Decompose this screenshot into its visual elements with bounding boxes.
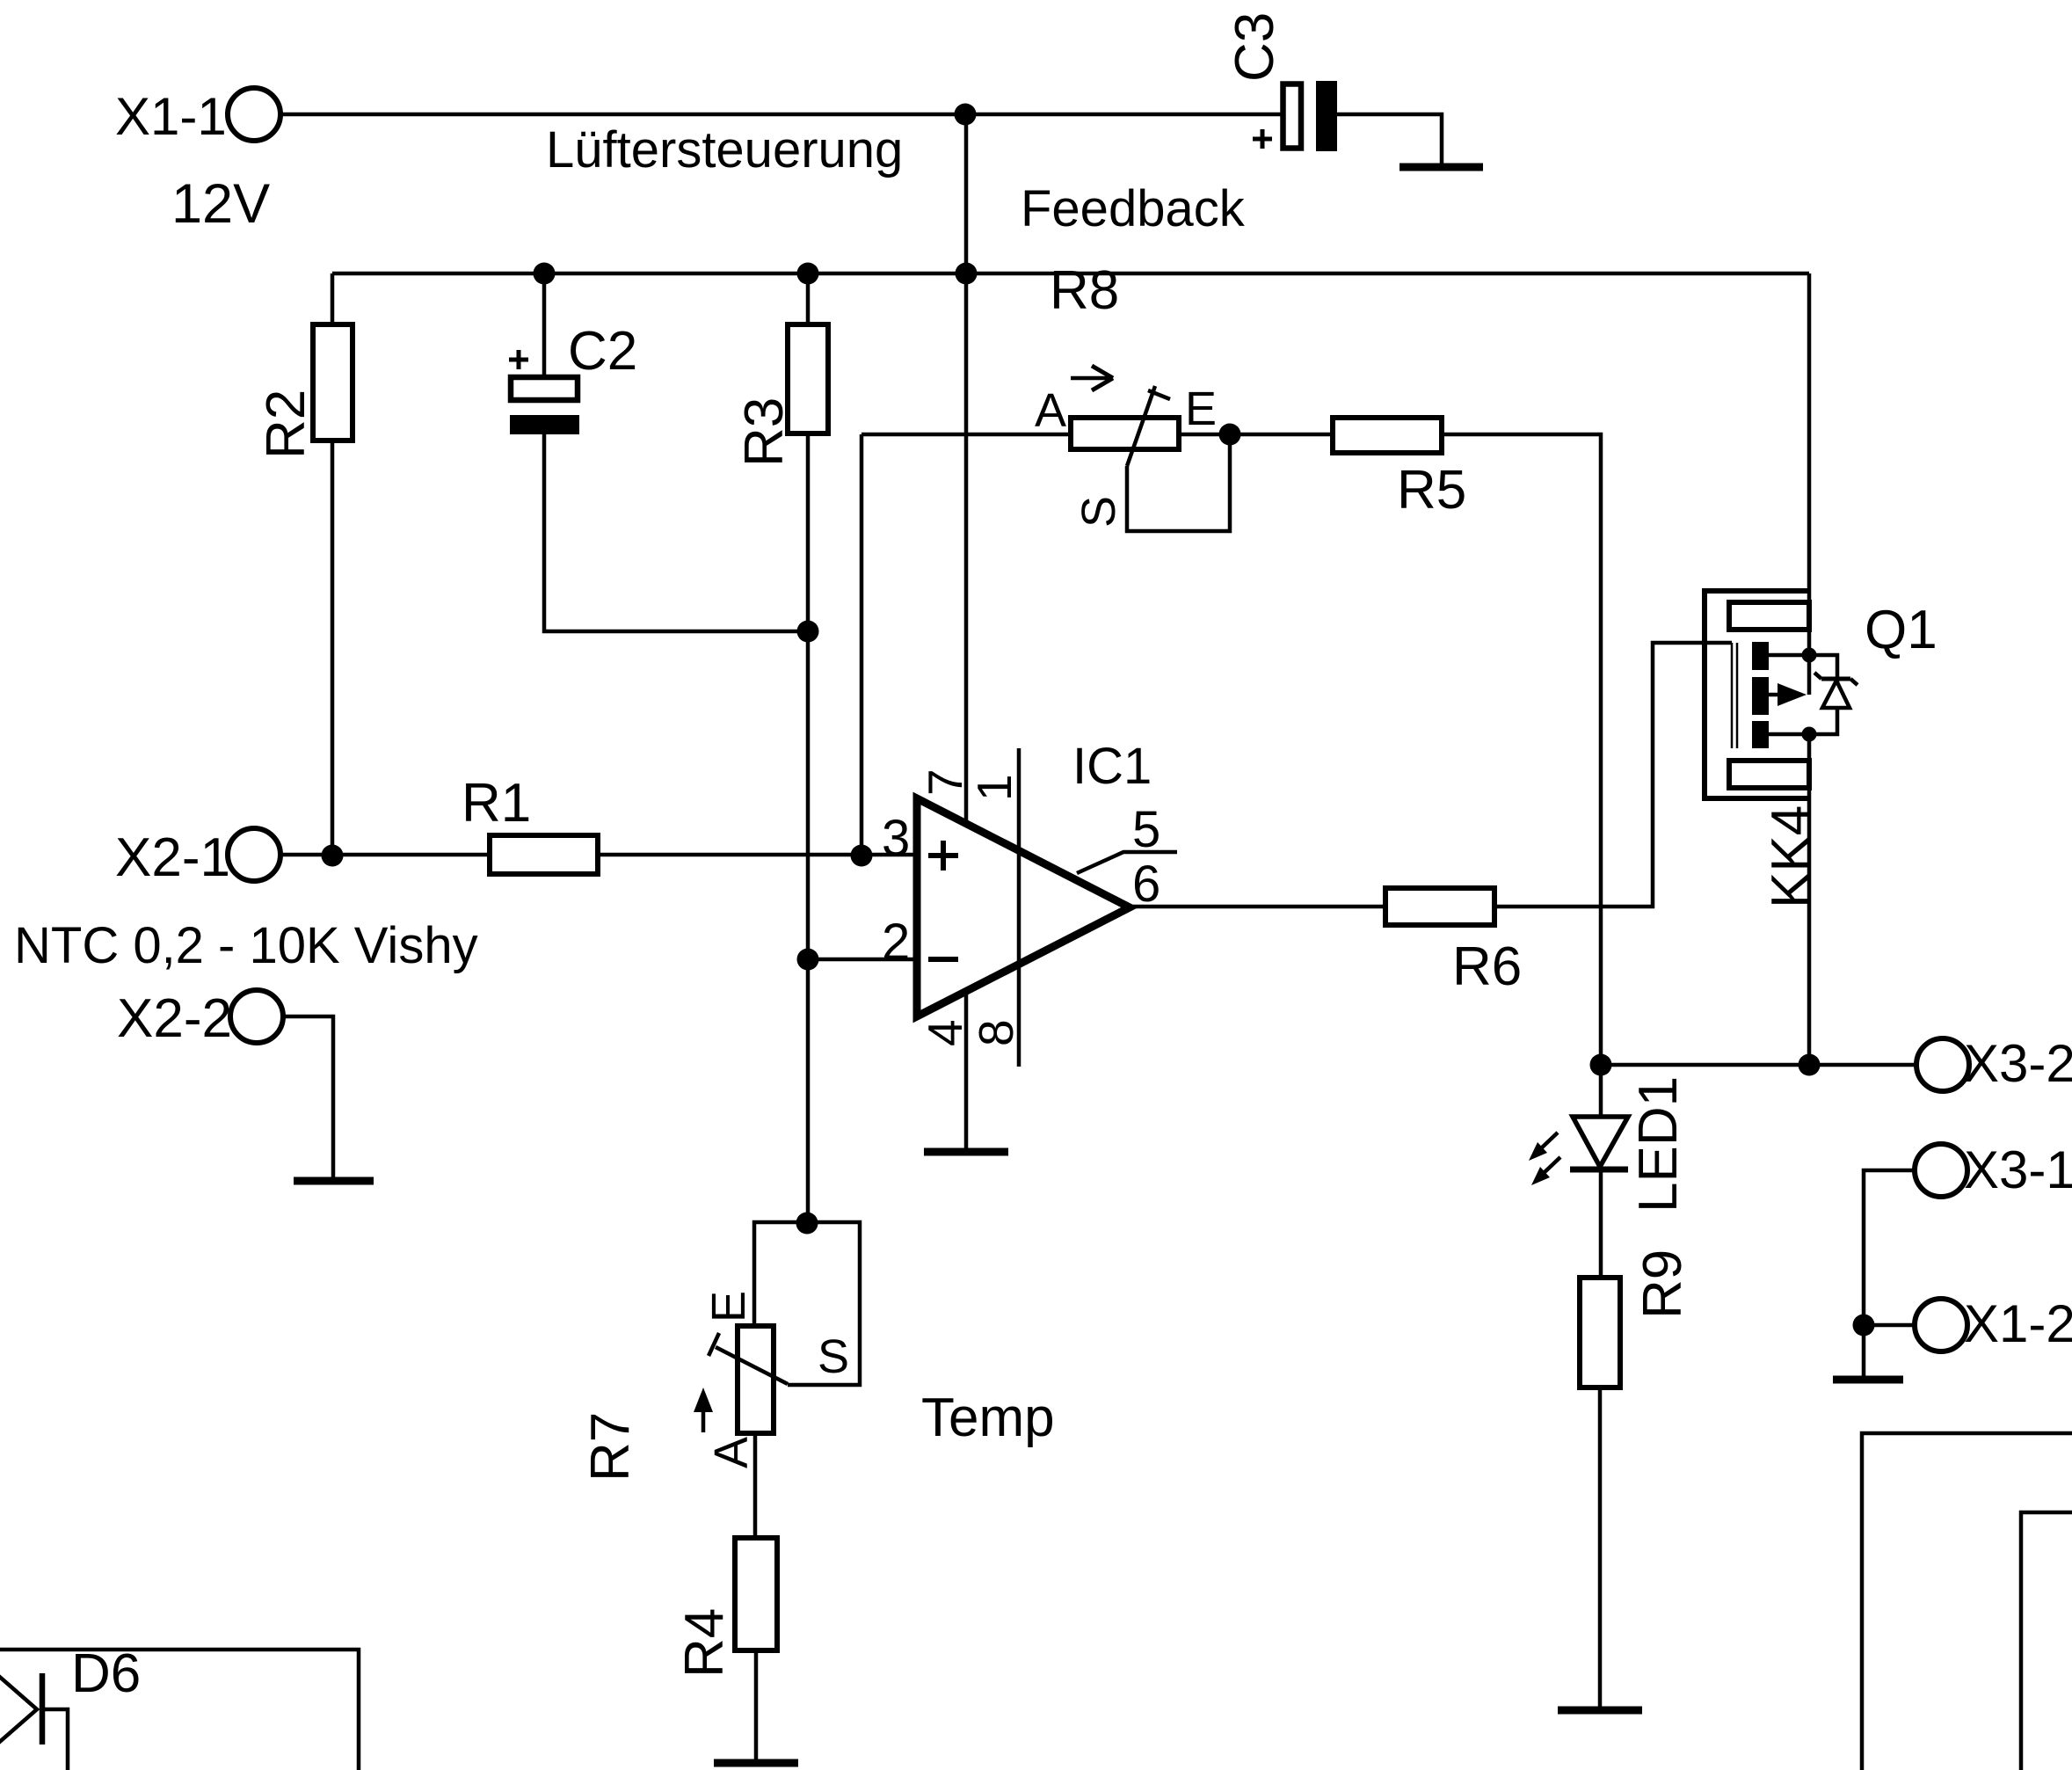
- svg-text:8: 8: [969, 1019, 1023, 1046]
- node Q1 source X3-2 junction: [1799, 1054, 1821, 1076]
- node R8 E junction: [1219, 424, 1241, 446]
- wire D6 cathode lead: [42, 1709, 68, 1770]
- op-amp IC1: [882, 738, 1160, 1046]
- wire X2-1 to R1: [280, 853, 490, 857]
- svg-text:NTC 0,2 - 10K Vishy: NTC 0,2 - 10K Vishy: [14, 917, 478, 974]
- wire Q1 source down: [1807, 734, 1812, 1065]
- svg-text:C2: C2: [568, 321, 637, 382]
- diode D6: [0, 1643, 141, 1745]
- node pin3 junction: [851, 845, 873, 867]
- node R3 top: [797, 263, 819, 285]
- wire pot R8 A drop to pin3: [860, 434, 864, 856]
- svg-text:R6: R6: [1452, 936, 1522, 997]
- resistor R5: [1333, 418, 1466, 521]
- wire X3-1 link: [1864, 1170, 1915, 1325]
- svg-text:X2-2: X2-2: [117, 988, 232, 1049]
- wire X2-2 to ground: [283, 1016, 333, 1177]
- node C2 top: [534, 263, 556, 285]
- svg-text:R3: R3: [734, 397, 795, 467]
- ground under C3: [1400, 164, 1483, 171]
- node Q1 source: [1802, 727, 1817, 742]
- wire op-amp output to R6: [1130, 905, 1385, 909]
- wire R7 S box: [754, 1222, 860, 1385]
- wire bottom-right outer box: [1862, 1433, 2072, 1770]
- terminal X3-2: [1916, 1034, 2072, 1093]
- svg-text:12V: 12V: [171, 173, 270, 235]
- wire R2 top lead: [331, 273, 335, 324]
- wire X3-2 net: [1601, 1063, 1916, 1067]
- heatsink KK4: [1705, 591, 1821, 908]
- node X3-1/X1-2 junction: [1853, 1315, 1875, 1337]
- svg-text:X1-2: X1-2: [1964, 1294, 2072, 1353]
- svg-text:S: S: [818, 1330, 849, 1383]
- svg-text:X3-1: X3-1: [1964, 1140, 2072, 1199]
- wire R7 to R4: [753, 1433, 758, 1538]
- svg-text:R1: R1: [462, 773, 531, 834]
- svg-text:KK4: KK4: [1761, 805, 1821, 908]
- wire R5 to LED node: [1442, 434, 1601, 1065]
- svg-text:7: 7: [918, 768, 972, 796]
- terminal X1-2: [1915, 1294, 2072, 1353]
- ground under X1-2: [1833, 1376, 1903, 1384]
- wire pot R8 A lead: [862, 433, 1071, 437]
- svg-text:X3-2: X3-2: [1964, 1034, 2072, 1093]
- svg-text:E: E: [702, 1291, 755, 1322]
- wire LED to R9: [1599, 1169, 1603, 1278]
- wire R8 E to R5: [1179, 433, 1333, 437]
- node LED top: [1590, 1054, 1612, 1076]
- wire R8 S loop: [1127, 434, 1230, 531]
- node Feedback junction: [955, 104, 977, 126]
- svg-text:E: E: [1185, 382, 1217, 435]
- svg-text:C3: C3: [1225, 12, 1285, 82]
- capacitor C2: [509, 273, 637, 434]
- wire 12V top rail: [280, 113, 1281, 117]
- potentiometer R7: [580, 1291, 849, 1482]
- svg-text:LED1: LED1: [1628, 1076, 1689, 1213]
- svg-text:5: 5: [1132, 801, 1160, 858]
- svg-text:R7: R7: [580, 1412, 641, 1482]
- wire feedback drop: [964, 114, 969, 273]
- svg-text:6: 6: [1132, 856, 1160, 913]
- wire C2 bottom to R3 line: [544, 434, 808, 631]
- wire pin1/pin8 stub: [1017, 748, 1021, 1067]
- node Q1 drain: [1802, 648, 1817, 663]
- svg-text:Temp: Temp: [921, 1388, 1055, 1448]
- node C2/R3 junction: [797, 621, 819, 643]
- svg-text:X1-1: X1-1: [115, 87, 227, 146]
- wire 12V rail 2: [332, 272, 1809, 276]
- svg-text:IC1: IC1: [1072, 738, 1152, 795]
- node pin2 junction: [797, 949, 819, 971]
- wire C3 to ground: [1337, 114, 1442, 164]
- ground under R4: [714, 1759, 798, 1767]
- LED LED1: [1529, 1065, 1689, 1213]
- node R2/X2-1 junction: [322, 845, 344, 867]
- resistor R9: [1580, 1249, 1693, 1388]
- potentiometer R8: [1035, 366, 1217, 528]
- terminal X2-1: [115, 827, 280, 888]
- wire R3 bottom lead down to R7: [806, 433, 811, 1223]
- capacitor C3: [1225, 12, 1337, 151]
- wire R3 top lead: [806, 273, 811, 324]
- wire R1 to op-amp pin3: [598, 853, 917, 857]
- transistor Q1: [1732, 600, 1938, 748]
- svg-text:A: A: [705, 1437, 758, 1468]
- svg-text:R4: R4: [674, 1608, 735, 1678]
- terminal X1-1: [115, 87, 280, 235]
- ground under op-amp: [924, 1148, 1008, 1156]
- svg-text:3: 3: [882, 810, 910, 867]
- node pin7 rail junction: [956, 263, 978, 285]
- wire bottom-right inner box: [2021, 1512, 2072, 1770]
- svg-text:R5: R5: [1397, 460, 1466, 521]
- wire bottom-left block frame: [0, 1650, 359, 1770]
- svg-text:2: 2: [882, 914, 910, 971]
- ground under R9: [1558, 1707, 1642, 1715]
- svg-text:Feedback: Feedback: [1021, 180, 1246, 237]
- svg-text:Lüftersteuerung: Lüftersteuerung: [546, 121, 903, 178]
- svg-text:4: 4: [918, 1019, 972, 1046]
- svg-text:D6: D6: [71, 1643, 141, 1704]
- wire R2 bottom lead: [331, 441, 335, 856]
- wire X1-2 link: [1864, 1325, 1915, 1376]
- svg-text:R2: R2: [256, 390, 316, 459]
- resistor R3: [734, 324, 828, 467]
- ground under X2-2: [294, 1177, 374, 1185]
- resistor R2: [256, 324, 353, 459]
- wire R6 to Q1 gate: [1494, 643, 1732, 907]
- wire pin5 stub: [1077, 852, 1177, 873]
- wire R4 to ground: [754, 1650, 759, 1759]
- svg-text:X2-1: X2-1: [115, 827, 230, 888]
- svg-text:S: S: [1072, 496, 1125, 528]
- wire Q1 drain from rail: [1807, 273, 1812, 655]
- node R7 top junction: [796, 1213, 818, 1235]
- svg-text:R8: R8: [1050, 260, 1119, 321]
- resistor R6: [1385, 888, 1522, 997]
- terminal X3-1: [1915, 1140, 2072, 1199]
- wire pin2 lead: [808, 958, 917, 962]
- wire pin7 / pin4 supply line: [964, 273, 969, 1148]
- resistor R4: [674, 1538, 777, 1678]
- terminal X2-2: [117, 988, 283, 1049]
- svg-text:1: 1: [967, 774, 1021, 801]
- svg-text:R9: R9: [1632, 1249, 1693, 1319]
- svg-text:Q1: Q1: [1865, 600, 1938, 660]
- wire R9 to ground: [1598, 1388, 1603, 1707]
- svg-text:A: A: [1035, 384, 1066, 437]
- resistor R1: [462, 773, 598, 874]
